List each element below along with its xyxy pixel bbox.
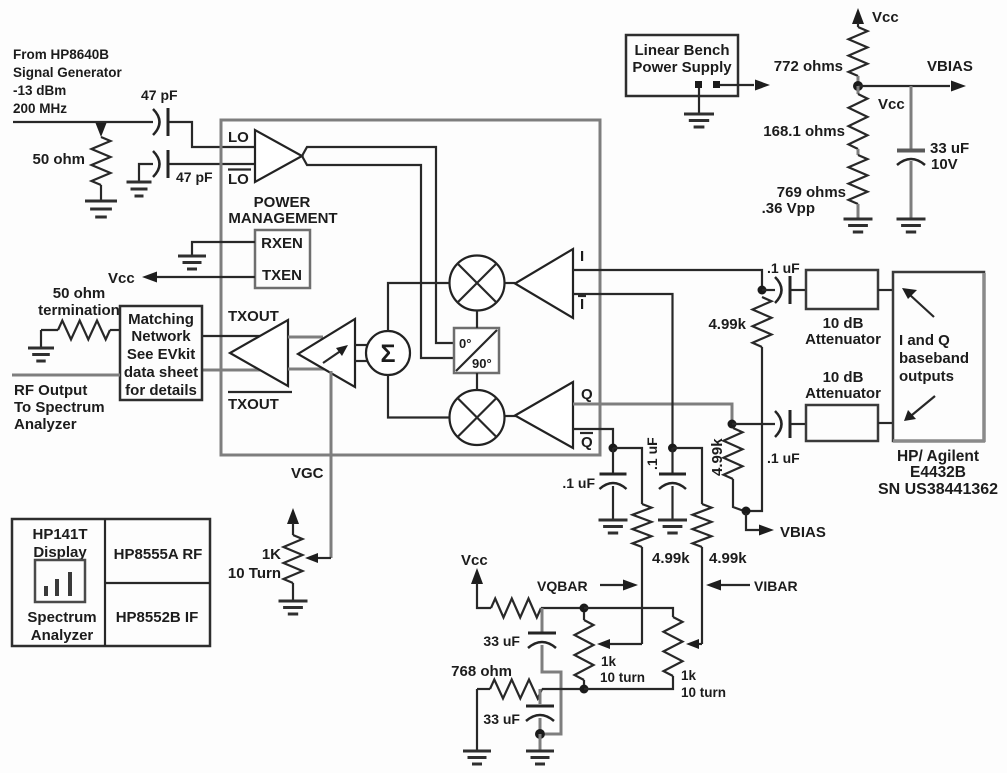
svg-text:Linear Bench: Linear Bench [634, 42, 729, 59]
svg-text:33 uF: 33 uF [483, 711, 520, 727]
svg-text:168.1 ohms: 168.1 ohms [763, 123, 845, 140]
capacitor .1 uF (Q) [775, 411, 782, 437]
display icon [35, 560, 85, 602]
ground [526, 751, 554, 764]
wire from signal generator [13, 122, 255, 147]
wire down to VBIAS node [750, 347, 762, 511]
svg-text:.1 uF: .1 uF [767, 450, 800, 466]
pin LObar [228, 168, 251, 170]
HP Agilent E4432B box [893, 272, 984, 441]
svg-text:TXOUT: TXOUT [228, 396, 279, 413]
wire TXEN to Vcc [156, 276, 255, 278]
capacitor 33 uF (top) [541, 608, 544, 632]
node Qbar junction [609, 444, 618, 453]
wire to ground [698, 88, 700, 113]
ground [279, 601, 308, 614]
svg-text:10 dB: 10 dB [823, 315, 864, 332]
svg-text:VBIAS: VBIAS [927, 58, 973, 75]
resistor 772 ohms [857, 23, 859, 27]
svg-text:HP8555A RF: HP8555A RF [114, 546, 203, 563]
capacitor 33 uF (bottom) [539, 689, 542, 704]
op-amp variable gain amp [298, 319, 355, 387]
wire [857, 204, 860, 218]
label VIBAR arrow [706, 580, 721, 591]
svg-text:Power Supply: Power Supply [632, 59, 732, 76]
svg-text:50 ohm: 50 ohm [53, 285, 106, 302]
svg-text:772 ohms: 772 ohms [774, 58, 843, 75]
svg-text:TXOUT: TXOUT [228, 308, 279, 325]
svg-text:TXEN: TXEN [262, 267, 302, 284]
capacitor 33 uF 10V branch [910, 86, 913, 149]
svg-text:Attenuator: Attenuator [805, 331, 881, 348]
svg-text:termination: termination [38, 302, 120, 319]
svg-text:I: I [580, 296, 584, 313]
svg-text:Analyzer: Analyzer [14, 416, 77, 433]
power Vcc (divider top) [852, 8, 864, 24]
svg-text:Matching: Matching [128, 311, 194, 328]
svg-text:768 ohm: 768 ohm [451, 663, 512, 680]
wire mixer I to summer [388, 283, 450, 331]
summing amp sigma [366, 331, 410, 375]
wire VBIAS output [858, 85, 950, 87]
svg-text:SN US38441362: SN US38441362 [878, 481, 998, 498]
capacitor 47 pF (bottom) [153, 151, 160, 177]
svg-text:1k: 1k [681, 668, 697, 683]
wire mixer Q input stub [505, 415, 517, 417]
wire rail to pot2 bottom [584, 676, 673, 689]
ground [599, 520, 628, 533]
node pot1 bottom [580, 685, 589, 694]
resistor 4.99k (I pulldown) [753, 297, 772, 347]
wire bottom rail [542, 688, 584, 690]
wire [732, 423, 806, 425]
svg-text:baseband: baseband [899, 350, 969, 367]
node cap junction [535, 729, 545, 739]
svg-text:4.99k: 4.99k [709, 438, 726, 476]
ground [28, 348, 54, 361]
wire Qbar [573, 429, 613, 444]
wire to LObar [139, 164, 255, 181]
svg-text:VBIAS: VBIAS [780, 524, 826, 541]
RXEN TXEN box [255, 230, 310, 288]
svg-text:E4432B: E4432B [910, 464, 966, 481]
svg-text:1k: 1k [601, 654, 617, 669]
wire to ground [476, 689, 478, 750]
capacitor .1 uF (Ibar, rotated label) [671, 448, 673, 473]
svg-text:-13 dBm: -13 dBm [13, 83, 66, 98]
svg-text:1K: 1K [262, 546, 281, 563]
resistor 4.99k (VIBAR) [673, 448, 703, 504]
svg-text:.36 Vpp: .36 Vpp [762, 200, 815, 217]
pin Ibar [578, 295, 586, 297]
wire Ibar [573, 294, 673, 444]
terminal [713, 81, 720, 88]
wire [477, 583, 491, 608]
potentiometer 1K 10 Turn (VGC) [284, 535, 303, 583]
ground [127, 182, 152, 196]
svg-text:4.99k: 4.99k [709, 550, 747, 567]
arrow to I input [910, 295, 934, 317]
svg-text:outputs: outputs [899, 368, 954, 385]
spectrum analyzer box [12, 519, 210, 646]
svg-text:769 ohms: 769 ohms [777, 184, 846, 201]
resistor 168.1 ohms [857, 86, 860, 94]
svg-text:Display: Display [33, 544, 87, 561]
wire to HP box [878, 422, 893, 424]
arrow to Q input [912, 396, 935, 415]
svg-text:RF Output: RF Output [14, 382, 87, 399]
svg-text:200 MHz: 200 MHz [13, 101, 67, 116]
attenuator box 1 [806, 270, 878, 309]
resistor 4.99k (VQBAR) [613, 448, 642, 504]
svg-text:HP141T: HP141T [32, 526, 87, 543]
gain control arrow [323, 350, 342, 363]
svg-text:Q: Q [581, 434, 593, 451]
op-amp LO buffer [255, 130, 302, 182]
svg-text:Vcc: Vcc [461, 552, 488, 569]
svg-text:Σ: Σ [380, 340, 395, 368]
svg-text:.1 uF: .1 uF [767, 260, 800, 276]
svg-text:VIBAR: VIBAR [754, 578, 798, 594]
svg-text:.1 uF: .1 uF [644, 437, 660, 470]
resistor termination [41, 329, 58, 331]
node divider tap [853, 81, 863, 91]
node I junction [758, 286, 767, 295]
wire VIBAR [701, 547, 703, 644]
matching network box [120, 306, 202, 400]
capacitor 47 pF (top) [153, 109, 160, 135]
svg-text:10 turn: 10 turn [681, 685, 726, 700]
arrow down to 50 ohm resistor [96, 123, 107, 137]
power arrow up (VGC pot) [287, 508, 299, 524]
node VQBAR pot top [580, 604, 589, 613]
mixer Q [450, 390, 505, 445]
node VBIAS junction [742, 507, 751, 516]
resistor (Vcc feed) [491, 599, 541, 618]
svg-text:Q: Q [581, 386, 593, 403]
wire LO buffer outputs [302, 147, 454, 358]
potentiometer 1k 10 turn (VIBAR) [664, 617, 683, 676]
wire mixer Q to summer [388, 375, 450, 418]
wire [292, 583, 294, 600]
svg-text:data sheet: data sheet [124, 364, 198, 381]
op-amp Q input buffer [515, 382, 573, 448]
ground [85, 201, 117, 217]
resistor 4.99k (Q pulldown, rotated label) [724, 428, 743, 479]
svg-text:0°: 0° [459, 336, 471, 351]
wire to VBIAS node [733, 479, 744, 511]
svg-text:POWER: POWER [254, 194, 311, 211]
wire to ground [40, 330, 42, 347]
svg-text:Signal Generator: Signal Generator [13, 65, 123, 80]
ground [897, 219, 926, 232]
resistor 769 ohms [857, 149, 860, 155]
wire [539, 734, 542, 750]
svg-text:VGC: VGC [291, 465, 324, 482]
svg-text:Vcc: Vcc [878, 96, 905, 113]
svg-text:10 turn: 10 turn [600, 670, 645, 685]
svg-text:10 Turn: 10 Turn [228, 565, 281, 582]
pin Qbar [580, 432, 593, 434]
ground [684, 114, 714, 127]
ground [463, 751, 491, 764]
resistor 50 ohm [92, 137, 111, 185]
svg-text:47 pF: 47 pF [176, 169, 213, 185]
wire RF output [12, 374, 120, 377]
capacitor .1 uF (I) [775, 277, 782, 303]
wire [100, 185, 102, 200]
ground [844, 219, 873, 232]
svg-text:Attenuator: Attenuator [805, 385, 881, 402]
svg-text:VQBAR: VQBAR [537, 578, 588, 594]
svg-text:MANAGEMENT: MANAGEMENT [228, 210, 337, 227]
mixer I [450, 256, 505, 311]
svg-text:33 uF: 33 uF [930, 140, 969, 157]
svg-text:Network: Network [131, 328, 191, 345]
wire Q output [573, 404, 732, 420]
svg-text:See EVkit: See EVkit [127, 346, 195, 363]
svg-text:To Spectrum: To Spectrum [14, 399, 105, 416]
svg-text:47 pF: 47 pF [141, 87, 178, 103]
svg-text:4.99k: 4.99k [708, 316, 746, 333]
wire mixer I to phase splitter [476, 311, 478, 329]
svg-text:I: I [580, 248, 584, 265]
wire to pot 2 [584, 608, 673, 617]
wire TXOUTbar [202, 369, 261, 372]
wire differential TX amp inputs [288, 337, 328, 369]
wire mixer Q to phase splitter [476, 373, 478, 390]
wire mixer I input stub [505, 282, 516, 284]
wire I output [573, 270, 762, 287]
node Q junction [728, 420, 737, 429]
wire [762, 289, 806, 291]
svg-text:90°: 90° [472, 356, 492, 371]
wire [541, 607, 584, 609]
svg-text:.1 uF: .1 uF [562, 475, 595, 491]
svg-text:10V: 10V [931, 156, 958, 173]
wire to HP box [878, 289, 893, 291]
terminal [695, 81, 702, 88]
node Ibar junction [668, 444, 677, 453]
svg-text:Analyzer: Analyzer [31, 627, 94, 644]
ground [178, 256, 206, 269]
wire VGA to summer [355, 345, 367, 361]
wire supply output arrow [720, 84, 754, 86]
wire [857, 76, 860, 86]
svg-text:I and Q: I and Q [899, 332, 950, 349]
wire TXOUT [202, 335, 261, 337]
wire VGC [330, 371, 333, 558]
wire VQBAR [641, 547, 643, 644]
potentiometer 1k 10 turn (VQBAR) [583, 612, 585, 620]
svg-text:From HP8640B: From HP8640B [13, 47, 109, 62]
op-amp TX output amplifier [230, 320, 288, 386]
svg-text:HP8552B IF: HP8552B IF [116, 609, 199, 626]
svg-text:50 ohm: 50 ohm [32, 151, 85, 168]
svg-text:Vcc: Vcc [872, 9, 899, 26]
svg-text:RXEN: RXEN [261, 235, 303, 252]
label: source annotation text [13, 47, 123, 116]
svg-text:33 uF: 33 uF [483, 633, 520, 649]
wire VBIAS arrow [746, 513, 759, 530]
op-amp I input buffer [515, 249, 573, 318]
IC block outline [221, 120, 600, 455]
linear bench power supply box [626, 35, 738, 96]
capacitor .1 uF (Qbar) [612, 448, 614, 473]
svg-text:LO: LO [228, 129, 249, 146]
svg-text:HP/ Agilent: HP/ Agilent [897, 448, 979, 465]
resistor 768 ohm [477, 688, 490, 690]
svg-text:4.99k: 4.99k [652, 550, 690, 567]
svg-text:Vcc: Vcc [108, 270, 135, 287]
pin TXOUTbar label [228, 391, 292, 393]
svg-text:for details: for details [125, 382, 197, 399]
wire RXEN to ground [192, 242, 255, 255]
ground [658, 520, 687, 533]
svg-text:Spectrum: Spectrum [27, 609, 96, 626]
svg-text:10 dB: 10 dB [823, 369, 864, 386]
phase splitter 0/90 box [454, 328, 499, 373]
attenuator box 2 [806, 405, 878, 441]
svg-text:LO: LO [228, 171, 249, 188]
